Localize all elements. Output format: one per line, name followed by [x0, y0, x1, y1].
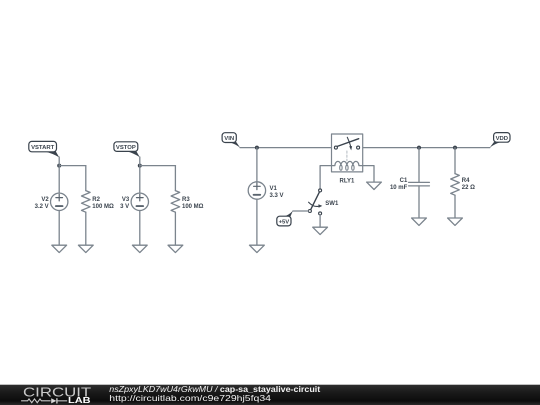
wire	[454, 148, 456, 174]
svg-text:SW1: SW1	[325, 201, 339, 207]
resistor R2	[82, 191, 114, 213]
wire	[256, 199, 258, 245]
ground	[168, 245, 183, 252]
resistor R3	[171, 191, 204, 213]
wire	[85, 166, 87, 191]
svg-text:10 mF: 10 mF	[390, 185, 408, 191]
svg-text:R3: R3	[182, 197, 190, 203]
svg-text:VSTART: VSTART	[31, 145, 55, 151]
svg-text:22 Ω: 22 Ω	[462, 185, 475, 191]
svg-text:3.3 V: 3.3 V	[270, 193, 284, 199]
wire	[58, 211, 60, 246]
wire	[418, 186, 420, 218]
logo diode	[51, 398, 56, 403]
svg-text:R2: R2	[92, 197, 100, 203]
wire VDD rail right	[360, 147, 490, 149]
svg-text:+5V: +5V	[279, 219, 290, 225]
wire	[140, 165, 176, 167]
svg-text:3.2 V: 3.2 V	[35, 204, 49, 210]
flag VIN	[222, 133, 240, 148]
flag +5V	[277, 211, 293, 226]
wire VIN rail left	[240, 147, 334, 149]
wire coil left	[320, 166, 331, 189]
svg-text:R4: R4	[462, 178, 470, 184]
ground	[250, 245, 265, 252]
svg-text:100 MΩ: 100 MΩ	[92, 204, 114, 210]
voltage source V3	[120, 193, 148, 210]
svg-text:VIN: VIN	[224, 136, 234, 142]
node VSTOP junction	[138, 164, 142, 168]
ground	[132, 245, 147, 252]
ground	[367, 182, 382, 189]
wire coil right	[363, 166, 374, 183]
ground	[52, 245, 67, 252]
flag VSTART	[29, 141, 59, 157]
svg-text:100 MΩ: 100 MΩ	[182, 204, 204, 210]
svg-text:V2: V2	[41, 197, 49, 203]
flag VSTOP	[114, 142, 140, 157]
svg-text:C1: C1	[400, 178, 408, 184]
node VSTART junction	[57, 164, 61, 168]
resistor R4	[451, 174, 475, 196]
ground	[412, 218, 427, 225]
node V1 junction	[255, 146, 259, 150]
svg-text:3 V: 3 V	[120, 204, 129, 210]
svg-text:LAB: LAB	[68, 395, 91, 405]
ground	[78, 245, 93, 252]
wire	[293, 210, 309, 212]
svg-text:V3: V3	[122, 197, 130, 203]
svg-text:V1: V1	[270, 186, 278, 192]
svg-text:VSTOP: VSTOP	[116, 145, 136, 151]
voltage source V1	[248, 182, 283, 199]
footer bar	[0, 385, 540, 405]
wire	[58, 157, 60, 166]
wire	[418, 148, 420, 183]
svg-text:RLY1: RLY1	[340, 178, 355, 184]
wire	[85, 212, 87, 245]
node C1 junction	[417, 146, 421, 150]
logo resistor squiggle	[21, 399, 51, 403]
svg-text:http://circuitlab.com/c9e729hj: http://circuitlab.com/c9e729hj5fq34	[109, 393, 271, 403]
wire	[139, 157, 141, 166]
wire	[59, 165, 86, 167]
wire	[319, 215, 321, 227]
node R4 junction	[453, 146, 457, 150]
relay RLY1	[332, 134, 363, 184]
wire	[454, 195, 456, 218]
ground	[448, 218, 463, 225]
ground	[313, 227, 328, 234]
wire	[58, 166, 60, 194]
svg-text:VDD: VDD	[496, 136, 508, 142]
wire	[139, 211, 141, 246]
capacitor C1	[390, 178, 429, 191]
switch SW1	[308, 189, 339, 215]
wire	[139, 166, 141, 194]
wire	[174, 212, 176, 245]
voltage source V2	[35, 193, 68, 210]
wire	[256, 148, 258, 182]
wire	[174, 166, 176, 191]
flag VDD	[490, 133, 510, 148]
